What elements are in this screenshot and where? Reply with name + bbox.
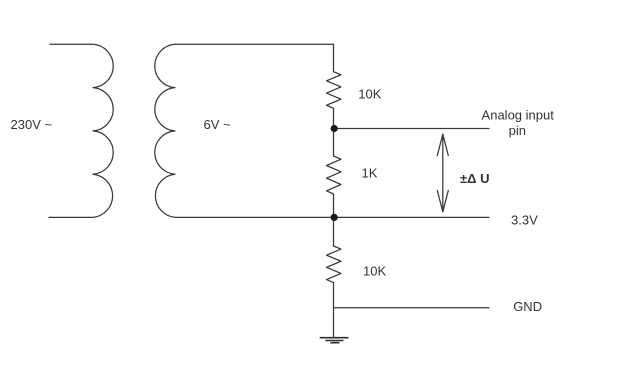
node B junction dot	[331, 214, 338, 221]
svg-text:230V ~: 230V ~	[11, 117, 53, 132]
measurement arrow ±ΔU shaft	[442, 134, 444, 212]
arrowhead down	[437, 191, 448, 212]
wire: R1 bottom through node A to R2 top	[333, 108, 335, 156]
svg-text:10K: 10K	[363, 264, 386, 279]
svg-text:3.3V: 3.3V	[511, 212, 538, 227]
svg-text:1K: 1K	[362, 166, 378, 181]
wire: GND wire	[334, 307, 490, 309]
svg-text:10K: 10K	[358, 87, 381, 102]
svg-text:Analog input: Analog input	[482, 107, 555, 122]
svg-text:pin: pin	[509, 123, 526, 138]
wire: R3 bottom down to ground junction	[333, 283, 335, 338]
arrowhead up	[437, 134, 448, 155]
resistor R1 10K (top)	[327, 72, 342, 109]
wire: analog input pin wire from node A	[334, 128, 490, 130]
node A junction dot	[331, 125, 338, 132]
resistor R3 10K (bottom)	[327, 246, 342, 283]
svg-text:6V ~: 6V ~	[204, 117, 232, 132]
wire: R2 bottom through node B to R3 top	[333, 194, 335, 246]
transformer secondary winding L2 (6V) with top wire to node A and bottom 3.3V wire	[155, 44, 489, 217]
resistor R2 1K (middle)	[327, 156, 342, 194]
ground symbol	[320, 338, 349, 343]
transformer primary winding L1 (230V) with top and bottom lead wires	[49, 44, 113, 217]
wire: top rail down to R1	[333, 44, 335, 71]
svg-text:GND: GND	[513, 299, 542, 314]
svg-text:±Δ U: ±Δ U	[460, 171, 489, 186]
